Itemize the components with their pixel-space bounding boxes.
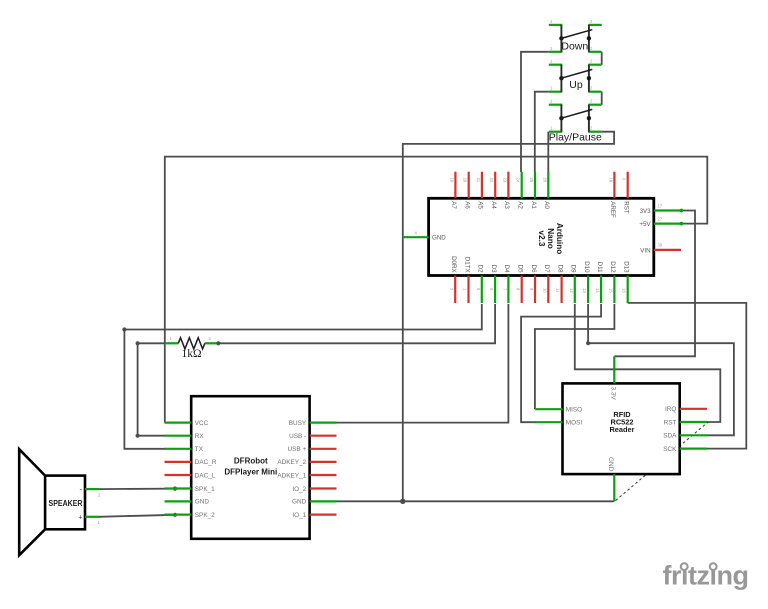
Arduino pin AREF (top) [608, 172, 616, 218]
fritzing logo i-dot rings [681, 563, 688, 570]
Arduino pin A7 (top) [449, 172, 457, 210]
junction RX resistor bendpoint [136, 341, 140, 345]
junction GND node [400, 499, 405, 504]
Arduino pin D6 (bottom) [529, 265, 537, 303]
DFPlayer pin USB- (right) [289, 433, 336, 440]
RFID RC522 U3 body [563, 383, 680, 474]
Arduino pin D10 (bottom) [582, 261, 590, 303]
ratsnest dashed SDA/GND [616, 422, 708, 500]
svg-text:D1TX: D1TX [463, 257, 470, 273]
Arduino pin VIN (right) [640, 243, 681, 255]
svg-text:D11: D11 [596, 262, 603, 273]
Arduino pin D7 (bottom) [542, 265, 550, 303]
wire button Down pin2 to Up pin2 [601, 52, 603, 65]
svg-text:17: 17 [658, 203, 663, 208]
Arduino pin A1 (top) [529, 172, 537, 210]
wire speaker plus to DFPlayer SPK_2 [99, 515, 175, 517]
svg-text:D6: D6 [530, 265, 537, 273]
wire Arduino 3V3 to RFID 3.3V [614, 211, 695, 357]
svg-text:14: 14 [595, 288, 600, 293]
svg-text:GND: GND [195, 499, 210, 506]
Arduino pin A5 (top) [476, 172, 484, 210]
DFPlayer pin SPK_1 (left) [165, 486, 216, 493]
Arduino pin A2 (top) [516, 172, 524, 210]
pushbutton S2 Up [549, 65, 602, 92]
svg-text:D3: D3 [490, 265, 497, 273]
svg-text:BUSY: BUSY [289, 420, 307, 427]
fritzing watermark logo [663, 561, 749, 591]
resistor R1 1k ohm [165, 338, 217, 349]
Arduino pin A4 (top) [489, 172, 497, 210]
svg-text:SDA: SDA [663, 433, 677, 440]
DFPlayer pin GND (left) [165, 499, 210, 506]
svg-text:24: 24 [516, 178, 521, 183]
DFPlayer pin GND (right) [292, 499, 337, 506]
svg-text:IRQ: IRQ [665, 406, 676, 413]
wire Arduino D2 to DFPlayer TX [124, 304, 481, 449]
DFPlayer pin DAC_R (left) [165, 459, 217, 466]
RFID pin GND (bottom) [607, 457, 615, 501]
wire Arduino D10 to RFID SDA [588, 304, 734, 435]
pushbutton S1 Down pin numbers [550, 19, 593, 51]
pushbutton S3 Play/Pause pin numbers [550, 99, 593, 131]
svg-text:RST: RST [623, 201, 630, 214]
svg-text:22: 22 [489, 178, 494, 183]
svg-text:GND: GND [607, 457, 614, 472]
svg-text:SPK_2: SPK_2 [195, 512, 215, 519]
svg-text:26: 26 [542, 178, 547, 183]
svg-text:TX: TX [195, 446, 204, 453]
svg-text:GND: GND [432, 235, 446, 242]
svg-text:23: 23 [502, 178, 507, 183]
svg-text:A6: A6 [464, 201, 471, 209]
RFID pin 3.3V (top) [610, 356, 617, 400]
wire DFPlayer RX to resistor R1 pin 1 [138, 343, 166, 435]
junction resistor pin2 node [216, 341, 220, 345]
speaker pin minus [85, 488, 99, 490]
RFID pin MOSI (left) [535, 420, 582, 427]
pushbutton S3 Play/Pause [549, 105, 602, 132]
DFPlayer pin IO_2 (right) [292, 486, 336, 493]
DFPlayer Mini U2 body [191, 396, 309, 539]
Arduino pin 3V3 (right) [640, 203, 681, 215]
Arduino pin A0 (top) [542, 172, 550, 210]
svg-text:MOSI: MOSI [566, 420, 583, 427]
svg-text:USB +: USB + [288, 446, 307, 453]
svg-text:D7: D7 [543, 265, 550, 273]
junction RX wire bendpoint [136, 434, 140, 438]
svg-text:DAC_L: DAC_L [195, 472, 216, 479]
wire Arduino D13 to RFID SCK [628, 303, 747, 449]
svg-text:Up: Up [569, 79, 583, 91]
DFPlayer pin ADKEY_1 (right) [277, 472, 336, 479]
DFPlayer pin IO_1 (right) [292, 512, 336, 519]
Arduino pin D12 (bottom) [608, 261, 616, 303]
wire button Up pin2 to Play/Pause pin2 [601, 92, 603, 105]
Arduino pin D3 (bottom) [489, 265, 497, 303]
wire button Play/Pause pin1 to Arduino A0 [547, 132, 549, 172]
Arduino pin RST (top) [622, 172, 630, 214]
green bendpoint +5V [680, 222, 684, 226]
svg-text:3V3: 3V3 [640, 208, 652, 215]
speaker LS1 [19, 449, 85, 555]
RFID pin MISO (left) [535, 407, 582, 414]
wire button Up pin1 to Arduino A1 [535, 92, 549, 172]
svg-text:Play/Pause: Play/Pause [549, 132, 602, 144]
Arduino pin D5 (bottom) [516, 265, 524, 303]
svg-text:D13: D13 [623, 261, 630, 273]
Arduino pin D0RX (bottom) [449, 256, 457, 303]
svg-text:DFRobot: DFRobot [234, 456, 268, 465]
svg-text:Reader: Reader [609, 425, 634, 434]
wire GND bottom: DFPlayer GND to RFID GND [337, 500, 615, 502]
RFID pin IRQ (right) [665, 406, 707, 413]
svg-text:fritzing: fritzing [663, 561, 749, 591]
svg-text:27: 27 [658, 216, 663, 221]
svg-text:1kΩ: 1kΩ [181, 348, 201, 360]
svg-text:SPEAKER: SPEAKER [49, 498, 84, 508]
Arduino pin D2 (bottom) [476, 265, 484, 303]
svg-text:+5V: +5V [639, 221, 651, 228]
svg-text:A0: A0 [543, 201, 550, 209]
svg-text:13: 13 [582, 288, 587, 293]
wire Arduino D12 to RFID MISO [535, 304, 615, 409]
Arduino pin GND (left) [403, 230, 446, 241]
svg-text:ADKEY_1: ADKEY_1 [277, 472, 306, 479]
wire GND net: buttons loop / Arduino GND vertical [403, 132, 614, 502]
DFPlayer pin USB+ (right) [288, 446, 337, 453]
svg-text:A4: A4 [490, 201, 497, 209]
wire Arduino D9 to RFID RST [575, 304, 721, 422]
Arduino pin D8 (bottom) [556, 265, 564, 303]
DFPlayer pin DAC_L (left) [165, 472, 216, 479]
Arduino pin +5V (right) [639, 216, 681, 228]
RFID pin SDA (right) [663, 433, 707, 440]
svg-text:AREF: AREF [609, 201, 616, 218]
svg-text:3.3V: 3.3V [610, 387, 617, 401]
wire button Down pin1 to Arduino A2 [521, 52, 549, 172]
DFPlayer pin RX (left) [165, 433, 205, 440]
wire +5V to DFPlayer VCC (net 5V) [165, 157, 708, 423]
svg-text:D0RX: D0RX [450, 256, 457, 273]
RFID pin SCK (right) [663, 446, 707, 453]
svg-text:ADKEY_2: ADKEY_2 [277, 459, 306, 466]
DFPlayer pin TX (left) [165, 446, 204, 453]
svg-text:IO_1: IO_1 [292, 512, 306, 519]
svg-text:GND: GND [292, 499, 307, 506]
RFID pin RST (right) [664, 419, 707, 426]
svg-text:21: 21 [476, 178, 481, 183]
svg-text:18: 18 [608, 178, 613, 183]
Arduino Nano U1 body [429, 198, 654, 275]
svg-text:+: + [78, 515, 82, 522]
junction D10 wire bendpoint [586, 341, 590, 345]
speaker pin plus [85, 516, 99, 518]
Arduino pin D13 (bottom) [622, 261, 630, 303]
svg-text:SPK_1: SPK_1 [195, 486, 215, 493]
DFPlayer pin VCC (left) [165, 420, 209, 427]
svg-text:A7: A7 [450, 201, 457, 209]
svg-text:RST: RST [664, 419, 677, 426]
svg-text:A1: A1 [530, 201, 537, 209]
wire resistor R1 pin 2 to Arduino D3 [218, 304, 495, 343]
svg-text:Down: Down [561, 40, 588, 52]
svg-text:D8: D8 [556, 265, 563, 273]
wire Arduino D11 to RFID MOSI [521, 304, 601, 422]
svg-text:A5: A5 [477, 201, 484, 209]
svg-text:15: 15 [608, 288, 613, 293]
svg-text:A3: A3 [503, 201, 510, 209]
svg-text:19: 19 [449, 178, 454, 183]
Arduino pin D1TX (bottom) [463, 257, 471, 303]
Arduino pin A6 (top) [463, 172, 471, 210]
svg-text:D12: D12 [609, 261, 616, 273]
svg-text:VCC: VCC [195, 420, 209, 427]
pushbutton S2 Up pin numbers [550, 59, 593, 91]
svg-text:D9: D9 [570, 265, 577, 273]
svg-text:DAC_R: DAC_R [195, 459, 217, 466]
svg-text:16: 16 [622, 288, 627, 293]
svg-text:RX: RX [195, 433, 205, 440]
Arduino pin D9 (bottom) [569, 265, 577, 303]
wire Arduino D4 to DFPlayer BUSY [337, 304, 509, 423]
svg-text:MISO: MISO [566, 407, 582, 414]
svg-text:D5: D5 [517, 265, 524, 273]
svg-text:D10: D10 [583, 261, 590, 273]
svg-text:D4: D4 [503, 265, 510, 273]
green bendpoint 3V3 [680, 209, 684, 213]
svg-text:DFPlayer Mini: DFPlayer Mini [224, 468, 277, 477]
svg-text:A2: A2 [517, 201, 524, 209]
DFPlayer pin ADKEY_2 (right) [277, 459, 336, 466]
svg-text:11: 11 [556, 288, 561, 293]
Arduino pin A3 (top) [502, 172, 510, 210]
wire speaker minus to DFPlayer SPK_1 [99, 488, 175, 491]
svg-text:25: 25 [529, 178, 534, 183]
svg-text:VIN: VIN [640, 247, 650, 254]
svg-text:IO_2: IO_2 [292, 486, 306, 493]
Arduino pin D4 (bottom) [502, 265, 510, 303]
svg-text:12: 12 [569, 288, 574, 293]
svg-text:30: 30 [658, 243, 663, 248]
svg-text:20: 20 [463, 178, 468, 183]
svg-text:D2: D2 [477, 265, 484, 273]
svg-text:10: 10 [542, 288, 547, 293]
pushbutton S1 Down [549, 25, 602, 52]
svg-text:USB -: USB - [289, 433, 306, 440]
svg-text:SCK: SCK [663, 446, 677, 453]
DFPlayer pin BUSY (right) [289, 420, 337, 427]
DFPlayer pin SPK_2 (left) [165, 512, 216, 519]
Arduino pin D11 (bottom) [595, 262, 603, 303]
junction TX wire bendpoint [122, 327, 126, 331]
